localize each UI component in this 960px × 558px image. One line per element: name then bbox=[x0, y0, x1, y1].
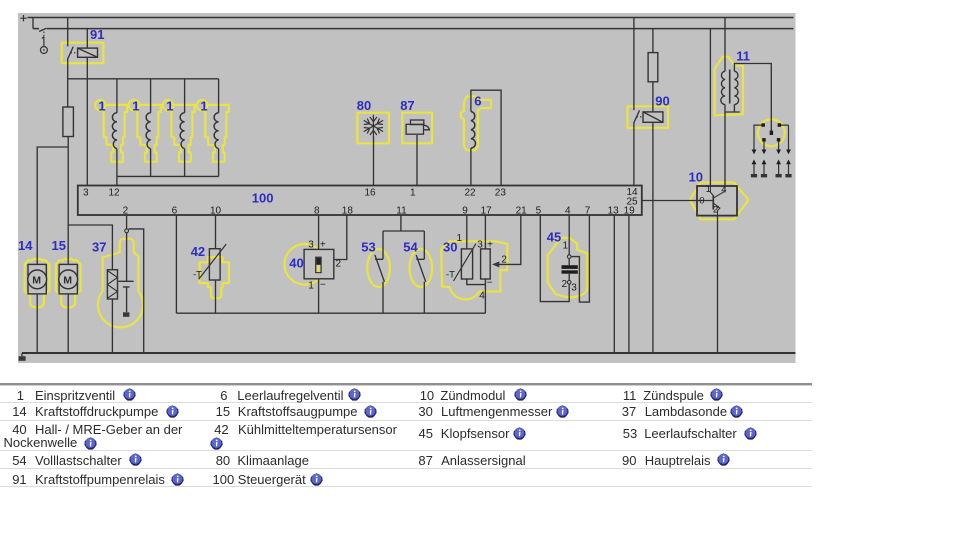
battery plus terminal bbox=[20, 15, 26, 21]
ignition coil 11 core bbox=[729, 70, 731, 104]
injector 2 coil bbox=[146, 113, 151, 149]
svg-text:40: 40 bbox=[289, 255, 303, 270]
svg-text:6: 6 bbox=[474, 94, 481, 109]
wire: coil 11 to module pin 4 bbox=[724, 112, 726, 186]
svg-text:1: 1 bbox=[563, 241, 569, 252]
wire: knock sensor pin 2 loop to ECU pin 5 bbox=[540, 215, 569, 302]
wire: lambda shield to ground rail bbox=[129, 229, 144, 353]
wire: hall sensor pin 2 to ECU pin 18 bbox=[334, 215, 347, 260]
injector 4 coil bbox=[214, 113, 219, 149]
wire: rail 15 to fuse (right) bbox=[652, 29, 654, 53]
svg-text:−: − bbox=[320, 280, 326, 291]
wire: ECU pin 13 to ground rail bbox=[613, 215, 615, 353]
fuse (fuel pumps) bbox=[63, 107, 74, 137]
wire: sensor 42 to return rail bbox=[215, 280, 217, 313]
knock sensor 45 highlight bbox=[548, 238, 588, 297]
wire: ECU pin 4 to knock sensor pin 1 bbox=[568, 215, 570, 255]
knock sensor piezo plates bbox=[562, 265, 578, 269]
svg-text:+: + bbox=[487, 240, 493, 251]
injector 3 highlight bbox=[171, 105, 194, 162]
svg-text:30: 30 bbox=[443, 239, 457, 254]
svg-text:M: M bbox=[63, 274, 72, 286]
idle valve 6 highlight bbox=[461, 96, 491, 150]
spark lead arrows bbox=[752, 150, 791, 155]
sensor ground rail bbox=[176, 312, 485, 314]
wire: relay 90 contact to ECU pin 14 bbox=[633, 123, 635, 185]
wiper arrow head bbox=[492, 261, 499, 267]
switch supply loop bbox=[383, 230, 424, 232]
injector 2 highlight bbox=[137, 105, 160, 162]
svg-text:0: 0 bbox=[699, 196, 704, 207]
svg-text:37: 37 bbox=[92, 240, 106, 255]
relay 90 coil bbox=[643, 112, 663, 122]
wire: injector 4 return bbox=[218, 149, 220, 177]
wire: hall sensor pin 1 to return rail bbox=[318, 279, 320, 313]
wire: injector 4 feed bbox=[218, 79, 220, 113]
spark plug gaps bbox=[751, 160, 792, 176]
wire: injector 1 return bbox=[116, 149, 118, 177]
svg-text:-T: -T bbox=[446, 270, 455, 281]
svg-text:2: 2 bbox=[501, 255, 507, 266]
ignition module 10 box bbox=[697, 186, 737, 216]
knock sensor pin 1 node bbox=[567, 255, 571, 259]
wire: injector 2 return bbox=[150, 149, 152, 177]
wire: rail 30 to ignition switch rail bbox=[32, 18, 34, 29]
wire: ECU pin 11 to switch loop bbox=[400, 215, 402, 231]
wire: relay 91 coil to ECU pin 3 bbox=[86, 57, 88, 185]
wire: rail 15 to relay 91 coil bbox=[86, 29, 88, 48]
idle switch 53 highlight bbox=[367, 249, 390, 287]
coolant temperature sensor 42 bbox=[209, 249, 220, 280]
svg-text:6: 6 bbox=[172, 205, 178, 216]
ignition switch blade bbox=[39, 28, 46, 31]
AC icon 80 highlight bbox=[357, 113, 389, 144]
ignition coil 11 primary winding bbox=[721, 71, 725, 104]
svg-text:80: 80 bbox=[357, 98, 371, 113]
relay 91 actuator dashed link bbox=[71, 52, 78, 54]
wire: ECU pin 19 to ground rail bbox=[628, 215, 630, 353]
wire: ECU pin 2 to lambda connector bbox=[126, 215, 128, 229]
wire: injector 1 feed bbox=[116, 79, 118, 113]
svg-text:21: 21 bbox=[516, 205, 528, 216]
svg-text:−: − bbox=[487, 277, 493, 288]
wire: knock sensor shield to ECU pin 7 bbox=[571, 215, 590, 302]
svg-text:+: + bbox=[320, 240, 326, 251]
ECU 100 box bbox=[78, 186, 642, 216]
wire: valve 6 coil to ECU pin 22 bbox=[470, 148, 472, 186]
injector 3 coil bbox=[180, 113, 185, 149]
svg-text:5: 5 bbox=[536, 205, 542, 216]
svg-text:4: 4 bbox=[721, 184, 726, 195]
wire: ECU pin 6 to sensor return rail bbox=[175, 215, 177, 313]
fuse (main relay) bbox=[648, 53, 658, 82]
supply rail 30 (battery, top line) bbox=[28, 17, 794, 19]
wire: pump 15 to ground rail bbox=[67, 294, 69, 353]
wire: fuse to pump 15 and heater junction bbox=[67, 137, 69, 265]
svg-text:2: 2 bbox=[336, 259, 342, 270]
schematic background panel bbox=[18, 13, 796, 363]
svg-text:23: 23 bbox=[495, 187, 507, 198]
svg-text:3: 3 bbox=[477, 239, 483, 250]
svg-text:1: 1 bbox=[706, 184, 711, 195]
ignition-switched rail 15 (second line) bbox=[33, 28, 794, 30]
ignition key symbol bbox=[42, 37, 44, 47]
module transistor bbox=[697, 200, 713, 202]
pump 14 motor bbox=[28, 264, 46, 294]
svg-text:1: 1 bbox=[308, 280, 314, 291]
ignition coil 11 secondary winding bbox=[734, 71, 738, 104]
air flow meter 30 thermistor bbox=[461, 249, 472, 279]
injector 1 highlight bbox=[104, 105, 127, 162]
svg-text:12: 12 bbox=[109, 187, 121, 198]
relay 90 actuator dashed link bbox=[637, 116, 644, 118]
coolant sensor 42 highlight bbox=[200, 257, 229, 298]
wire: ECU pin 10 to coolant sensor 42 bbox=[215, 215, 217, 249]
wire: cell to sensor ground bbox=[126, 287, 128, 312]
ground symbol bbox=[21, 353, 23, 356]
idle valve 6 top loop bbox=[471, 90, 501, 185]
wire: injector 3 feed bbox=[184, 79, 186, 113]
svg-text:2: 2 bbox=[123, 205, 129, 216]
svg-text:1: 1 bbox=[98, 98, 105, 113]
wire: rail 30 to relay 90 contact bbox=[633, 18, 635, 111]
svg-text:11: 11 bbox=[736, 48, 750, 63]
svg-text:90: 90 bbox=[655, 93, 669, 108]
relay 90 contact blade bbox=[634, 110, 640, 123]
injector 1 coil bbox=[112, 113, 117, 149]
wire: ECU pin 21 to wiper arrow bbox=[498, 215, 521, 264]
wire: relay 90 coil to ground rail bbox=[652, 122, 654, 353]
injector supply rail bbox=[68, 78, 219, 80]
relay 91 highlight bbox=[62, 43, 104, 64]
hall sensor 40 box bbox=[304, 249, 334, 278]
hall element bbox=[316, 257, 321, 272]
wire: rail 30 to ignition coil 11 bbox=[724, 18, 726, 72]
knock sensor pin 2 node bbox=[567, 281, 571, 285]
relay 90 highlight bbox=[628, 106, 669, 128]
ignition coil 11 highlight bbox=[715, 57, 743, 116]
lambda sensor cell bbox=[118, 281, 133, 287]
svg-text:22: 22 bbox=[465, 187, 477, 198]
svg-text:1: 1 bbox=[200, 98, 207, 113]
hall sensor 40 highlight bbox=[285, 244, 326, 285]
starter icon 87 highlight bbox=[402, 113, 432, 144]
svg-text:10: 10 bbox=[689, 169, 703, 184]
svg-text:-T: -T bbox=[193, 270, 202, 281]
wire: starter icon 87 to ECU pin 1 bbox=[416, 135, 418, 186]
svg-text:2: 2 bbox=[562, 279, 568, 290]
svg-text:3: 3 bbox=[571, 283, 577, 294]
svg-text:2: 2 bbox=[713, 205, 718, 216]
idle switch 53 bbox=[375, 231, 385, 313]
idle valve 6 coil bbox=[471, 112, 476, 149]
ignition key dashed link bbox=[43, 32, 45, 37]
svg-text:1: 1 bbox=[166, 98, 173, 113]
lambda connector node bbox=[125, 229, 129, 233]
wire: ECU pin 25 to ignition module bbox=[642, 200, 697, 202]
svg-text:42: 42 bbox=[191, 244, 205, 259]
svg-text:91: 91 bbox=[90, 27, 104, 42]
svg-text:3: 3 bbox=[308, 240, 314, 251]
svg-text:45: 45 bbox=[547, 229, 561, 244]
lambda heater resistor bbox=[107, 270, 117, 299]
starter (Anlassersignal) icon 87 bbox=[406, 120, 429, 134]
wire: lambda connector to sensor cell bbox=[126, 233, 128, 281]
wire: ECU pin 17 to air flow meter bbox=[484, 215, 486, 249]
lambda sensor 37 highlight bbox=[98, 239, 143, 328]
injector return rail bbox=[117, 175, 219, 177]
lambda sensor ground bbox=[123, 312, 129, 317]
pump 15 highlight bbox=[56, 259, 81, 308]
wire: rail 30 down to relay 91 contact bbox=[67, 18, 69, 47]
svg-text:1: 1 bbox=[410, 187, 416, 198]
info icons bbox=[123, 388, 136, 401]
wire: injector 2 feed bbox=[150, 79, 152, 113]
wire: lambda heater to ground rail bbox=[111, 299, 113, 353]
svg-text:100: 100 bbox=[252, 190, 274, 205]
distributor highlight bbox=[758, 119, 785, 146]
svg-text:87: 87 bbox=[400, 98, 414, 113]
svg-text:19: 19 bbox=[624, 205, 636, 216]
relay 91 coil bbox=[78, 48, 98, 57]
svg-text:3: 3 bbox=[83, 187, 89, 198]
wire: relay 91 contact out to fuse bbox=[67, 59, 69, 107]
relay 91 contact blade bbox=[67, 47, 73, 60]
wire: thermistor bottom link bbox=[467, 279, 486, 285]
wire: injector rail to ECU pin 12 bbox=[116, 176, 118, 185]
wire: injector 3 return bbox=[184, 149, 186, 177]
svg-text:14: 14 bbox=[18, 238, 33, 253]
svg-text:8: 8 bbox=[314, 205, 320, 216]
ground rail bbox=[22, 352, 796, 354]
svg-text:M: M bbox=[32, 274, 41, 286]
svg-text:10: 10 bbox=[210, 205, 222, 216]
svg-text:54: 54 bbox=[403, 240, 418, 255]
pump 14 highlight bbox=[25, 259, 50, 308]
svg-text:4: 4 bbox=[565, 205, 571, 216]
wire: AC icon 80 to ECU pin 16 bbox=[373, 137, 375, 186]
svg-text:13: 13 bbox=[608, 205, 620, 216]
wire: pump 14 to ground rail bbox=[36, 294, 38, 353]
svg-text:17: 17 bbox=[481, 205, 493, 216]
wire: fuse to relay 90 coil bbox=[652, 82, 654, 112]
air flow meter 30 resistor bbox=[481, 249, 491, 279]
svg-text:15: 15 bbox=[52, 238, 66, 253]
svg-text:1: 1 bbox=[132, 98, 139, 113]
wire: air flow meter to return rail bbox=[484, 279, 486, 313]
ignition module 10 highlight bbox=[690, 183, 749, 220]
svg-text:18: 18 bbox=[342, 205, 354, 216]
svg-text:53: 53 bbox=[361, 240, 375, 255]
wire: coil 11 secondary to distributor bbox=[734, 64, 771, 131]
distributor contacts bbox=[761, 123, 765, 127]
svg-text:7: 7 bbox=[585, 205, 591, 216]
LEGEND bbox=[0, 383, 812, 385]
full load switch 54 bbox=[416, 231, 426, 313]
injector 4 highlight bbox=[205, 105, 228, 162]
wire: rail 15 to module pin 1 bbox=[709, 29, 711, 186]
svg-text:16: 16 bbox=[365, 187, 377, 198]
distributor rotor feed node bbox=[770, 131, 773, 135]
AC (Klimaanlage) snowflake icon 80 bbox=[364, 115, 383, 137]
air flow meter 30 highlight bbox=[441, 241, 507, 299]
wire: ECU pin 9 to air flow meter bbox=[466, 215, 468, 249]
wire: branch to pump 14 bbox=[37, 147, 68, 264]
svg-text:11: 11 bbox=[396, 205, 407, 216]
spark leads bbox=[754, 125, 789, 150]
svg-text:9: 9 bbox=[462, 205, 468, 216]
ignition coil 11 bottom link bbox=[725, 105, 740, 113]
pump 15 motor bbox=[59, 264, 77, 294]
wire: module pin 2 to ground rail bbox=[717, 216, 719, 353]
wire: ECU pin 8 to hall sensor 40 bbox=[318, 215, 320, 249]
wire: branch to lambda heater bbox=[68, 225, 112, 270]
full load switch 54 highlight bbox=[410, 249, 433, 287]
svg-text:4: 4 bbox=[479, 291, 485, 302]
